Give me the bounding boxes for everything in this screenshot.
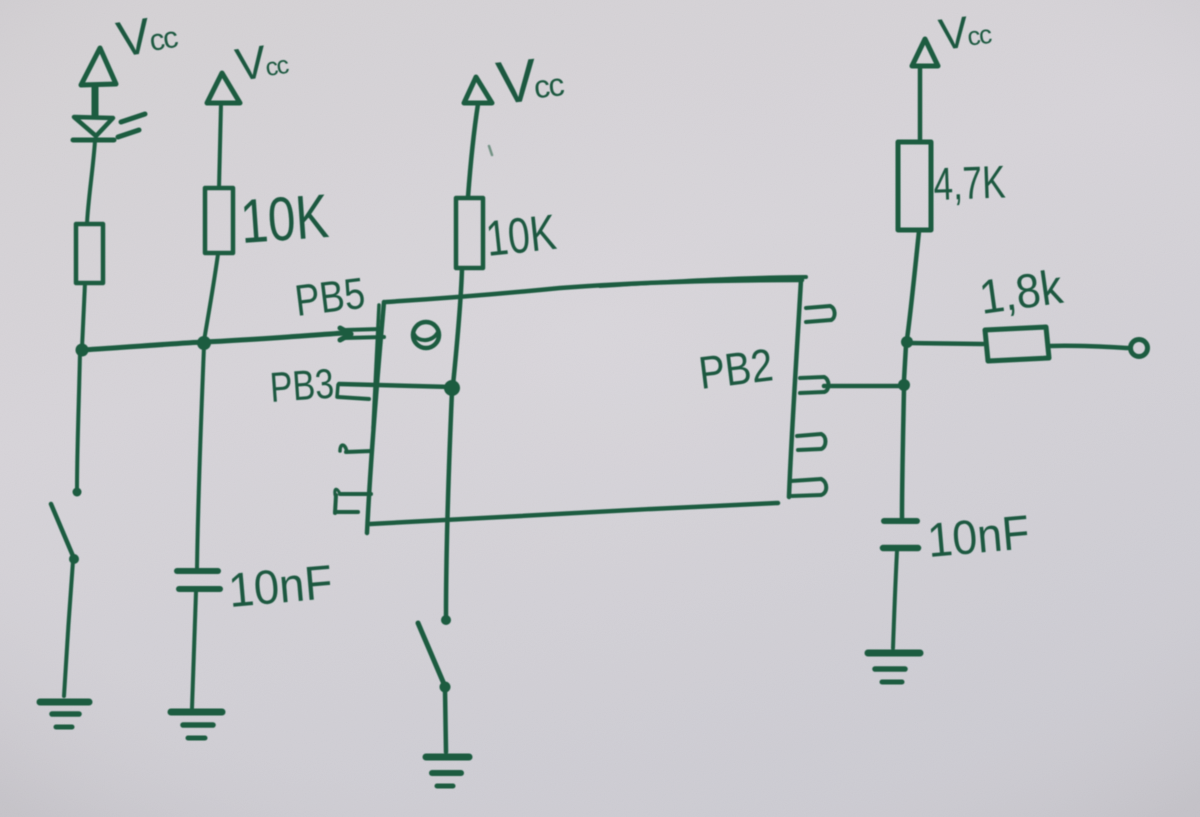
svg-text:PB2: PB2 [696, 338, 776, 399]
IC U1 left pin PB3 and wire to node C [337, 384, 452, 399]
R4 value label 4,7K [933, 156, 1007, 210]
ground symbol (S2) [426, 757, 469, 786]
IC U1 pin-1 mark [413, 322, 439, 348]
node B junction dot [197, 336, 211, 350]
switch S1 top contact dot [73, 488, 82, 497]
switch S2 top contact dot [441, 615, 451, 625]
node D junction dot (PB2 net) [898, 379, 910, 391]
node C junction dot (PB3 net) [444, 380, 460, 396]
wire Vcc to resistor R4 [918, 67, 923, 142]
node A junction dot [76, 344, 89, 357]
wire resistor R2 to node B [204, 254, 218, 341]
R3 value label 10K [483, 204, 558, 267]
IC U1 body [367, 277, 806, 533]
switch S2 blade [418, 623, 444, 684]
resistor R1 (LED series) [76, 224, 103, 283]
Vcc symbol V3 (10K to IC) [464, 77, 492, 103]
stray marker tick [489, 146, 492, 155]
svg-text:PB5: PB5 [292, 269, 367, 326]
wire node D to capacitor C2 [902, 388, 904, 518]
ground symbol (switch S1) [40, 702, 89, 727]
IC U1 left pin PB5 [340, 328, 384, 340]
IC U1 left pin 4 [335, 489, 371, 513]
capacitor C2 10nF [883, 521, 918, 548]
wire node E to resistor R5 [907, 343, 983, 344]
switch S1 blade [51, 504, 73, 556]
resistor R2 10K [205, 188, 233, 253]
resistor R3 10K [456, 198, 483, 268]
svg-text:PB3: PB3 [268, 360, 335, 411]
svg-text:10nF: 10nF [226, 556, 334, 618]
wire resistor R4 to node E [907, 231, 919, 339]
LED D1 [73, 114, 145, 140]
wire Vcc to resistor R3 [468, 104, 478, 197]
wire resistor R1 to node A [82, 283, 85, 348]
svg-text:10K: 10K [483, 204, 558, 267]
switch S2 bottom contact dot [440, 682, 451, 693]
R2 value label 10K [238, 182, 331, 257]
PB3 net label [268, 360, 335, 411]
svg-text:4,7K: 4,7K [933, 156, 1007, 210]
wire capacitor C1 to ground [192, 592, 196, 708]
IC U1 left pin 3 [340, 445, 372, 452]
wire switch S1 to ground [64, 561, 73, 696]
resistor R5 1,8k [985, 327, 1049, 361]
Vcc label (10K to IC) [493, 43, 567, 117]
resistor R4 4,7K [898, 142, 931, 230]
wire switch S2 to ground [445, 689, 446, 752]
ground symbol (C1) [171, 712, 222, 738]
wire node A down to switch S1 [77, 352, 80, 489]
wire node B to capacitor C1 [197, 346, 204, 568]
Vcc label (LED branch) [113, 3, 181, 68]
svg-text:10nF: 10nF [925, 506, 1031, 568]
switch S1 bottom contact dot [69, 554, 79, 564]
wire resistor R3 into IC to node C [453, 269, 462, 385]
C2 value label 10nF [925, 506, 1031, 568]
wire node C down to switch S2 [446, 391, 452, 617]
Vcc symbol V1 (LED branch) [81, 48, 116, 116]
Vcc label (4,7K) [936, 5, 994, 60]
wire Vcc to resistor R2 [219, 104, 221, 188]
Vcc symbol V4 (4,7K) [912, 39, 938, 66]
wire node E down to node D [904, 345, 906, 380]
C1 value label 10nF [226, 556, 334, 618]
wire capacitor C2 to ground [893, 551, 897, 648]
IC U1 right pin 4 [791, 479, 826, 496]
R5 value label 1,8k [976, 261, 1066, 325]
output terminal (open circle) [1131, 340, 1148, 357]
svg-text:10K: 10K [238, 182, 331, 257]
IC U1 right pin 3 [797, 434, 826, 450]
wire LED to resistor [87, 141, 95, 224]
node E junction dot [901, 336, 913, 348]
wire rail node A to node B to PB5 pin [82, 333, 344, 350]
PB2 net label [696, 338, 776, 399]
Vcc symbol V2 (10K pullup) [207, 73, 240, 103]
IC U1 right pin 1 [806, 306, 835, 322]
wire PB2 pin to node D [824, 384, 901, 389]
wire resistor R5 to output terminal [1049, 346, 1128, 348]
ground symbol (C2) [868, 653, 920, 682]
capacitor C1 10nF [177, 571, 220, 589]
PB5 net label [292, 269, 367, 326]
IC U1 right pin PB2 [800, 377, 829, 393]
Vcc label (10K pullup) [232, 32, 291, 91]
